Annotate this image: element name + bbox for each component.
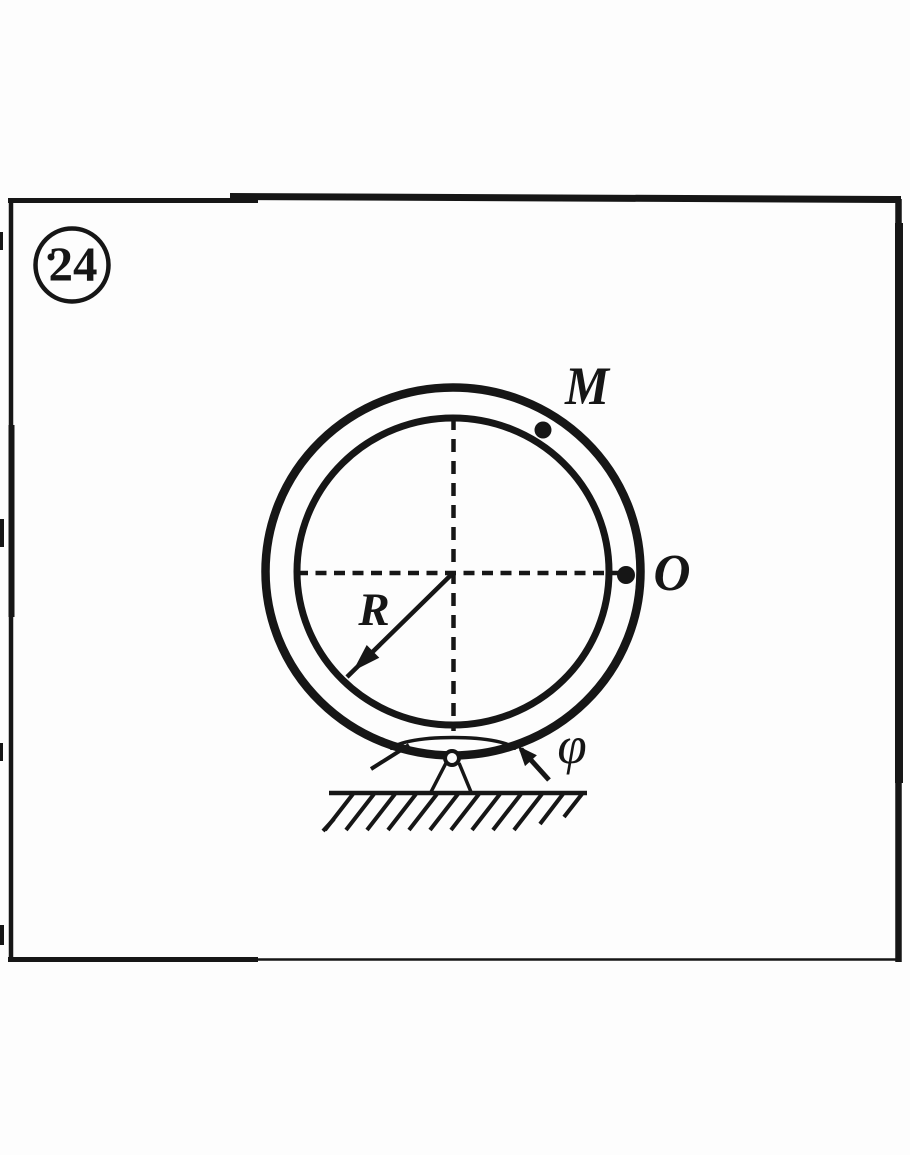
ground hatch 12 xyxy=(564,794,582,817)
pivot triangle left leg xyxy=(431,763,446,792)
ground hatch 10 xyxy=(514,794,542,830)
page edge mark 4 xyxy=(0,925,4,945)
support cradle arc xyxy=(392,738,514,751)
pivot triangle right leg xyxy=(459,763,471,792)
badge circle 24 xyxy=(36,229,109,302)
radius arrowhead xyxy=(353,645,379,671)
ground hatch 7 xyxy=(451,794,479,830)
horizontal dashed axis xyxy=(297,571,631,576)
ground hatch 1 xyxy=(325,794,353,830)
page edge mark 3 xyxy=(0,743,3,761)
pivot pin xyxy=(445,751,459,765)
frame border bottom right segment xyxy=(255,958,901,961)
svg-text:φ: φ xyxy=(557,717,586,775)
ground hatch 4 xyxy=(388,794,416,830)
frame border bottom left segment xyxy=(8,957,258,962)
svg-text:M: M xyxy=(564,356,611,416)
ground hatch 8 xyxy=(472,794,500,830)
angle arrow phi line xyxy=(521,749,549,780)
ground hatch 6 xyxy=(430,794,458,830)
ground hatch 2 xyxy=(346,794,374,830)
ground hatch 11 xyxy=(540,794,563,824)
point M dot xyxy=(535,422,552,439)
ground hatch stub left xyxy=(323,819,334,831)
angle arrowhead phi xyxy=(518,746,537,766)
ground hatch 9 xyxy=(493,794,521,830)
ring inner circle xyxy=(297,418,609,725)
ground hatch 5 xyxy=(409,794,437,830)
ground line xyxy=(329,791,587,796)
page edge mark 1 xyxy=(0,232,3,250)
frame border right thick lower section xyxy=(895,223,903,783)
frame border top left segment xyxy=(8,198,258,203)
svg-text:24: 24 xyxy=(49,237,98,292)
ring outer circle xyxy=(266,388,641,756)
frame border left xyxy=(9,198,14,961)
point O dot xyxy=(617,566,635,584)
frame border top right segment xyxy=(230,197,901,200)
contact tick left xyxy=(371,745,409,769)
radius line R xyxy=(347,574,452,677)
frame border left thick middle section xyxy=(9,425,15,617)
page edge mark 2 xyxy=(0,519,4,547)
svg-text:O: O xyxy=(654,545,691,602)
frame border right xyxy=(895,199,902,962)
badge speck xyxy=(48,254,55,261)
ground hatch 3 xyxy=(367,794,395,830)
svg-text:R: R xyxy=(357,584,389,636)
vertical dashed axis xyxy=(451,417,456,731)
